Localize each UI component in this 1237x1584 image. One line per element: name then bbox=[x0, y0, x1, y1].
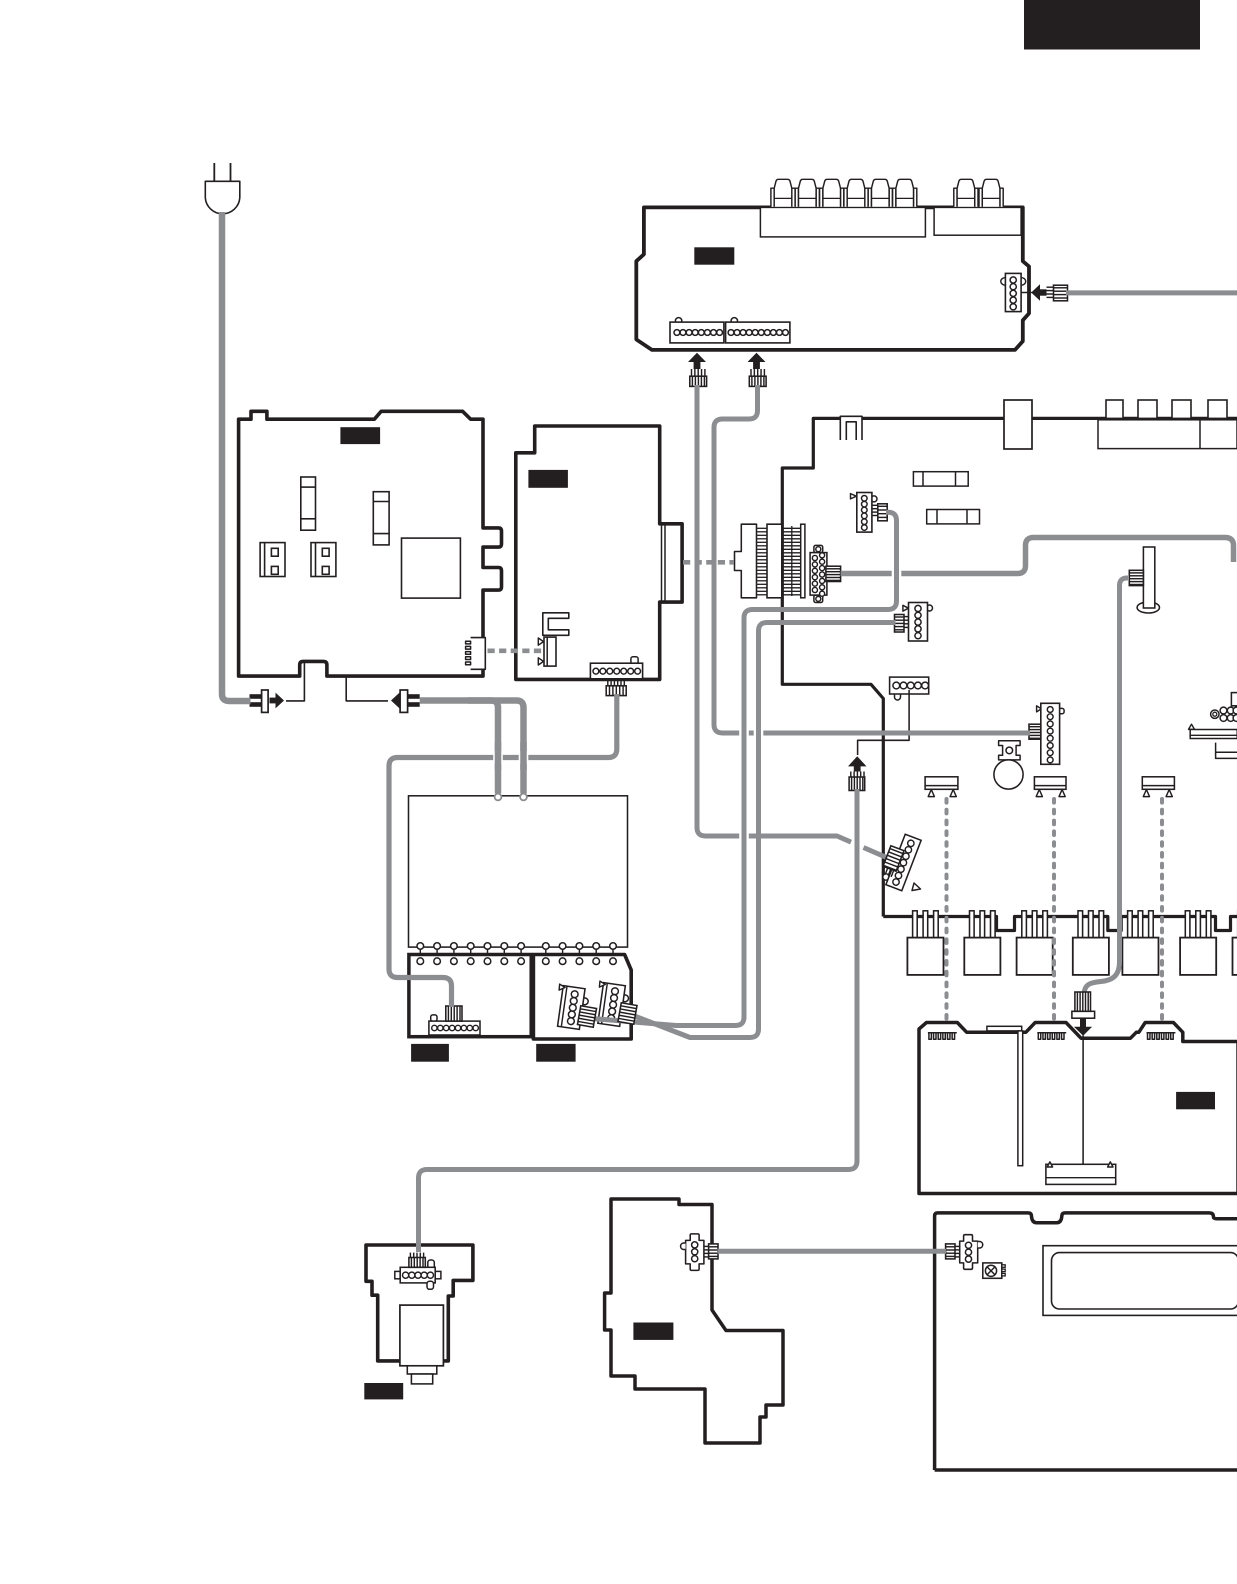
jack shield footprint 2 bbox=[934, 207, 1021, 235]
board PW-4 MAIN outline left/top bbox=[782, 418, 1237, 916]
plug P-A2 bbox=[750, 369, 752, 376]
wire CN-M8 to P-H1 bbox=[1084, 578, 1128, 996]
arrow into CN-A1 bbox=[688, 353, 706, 369]
flex ribbon connector assembly bbox=[735, 524, 757, 598]
AC plug body bbox=[205, 181, 240, 213]
heatsink comb 3 bbox=[1147, 1033, 1176, 1040]
connector CN-M1 6pin bbox=[851, 494, 857, 499]
RCA jack group 1 (6 jacks) bbox=[771, 188, 774, 207]
connector CN-A3 5pin right bbox=[1001, 278, 1006, 286]
connector CN-S1 3pin bbox=[686, 1234, 704, 1271]
heatsink comb 2 bbox=[1037, 1033, 1066, 1040]
wire PW-2 to PW-5 bbox=[389, 694, 617, 1007]
connector CN-M3 5pin bbox=[903, 605, 909, 611]
board PW-8 DISPLAY outline bbox=[935, 1213, 1237, 1470]
board PW-10 outline bbox=[366, 1245, 473, 1361]
relay RY2 bbox=[311, 543, 336, 577]
signal line CN-M4 to plug bbox=[858, 690, 910, 755]
plug P-B1 bbox=[446, 1006, 462, 1021]
thermal sensor bar bbox=[1046, 1164, 1116, 1184]
plug P-M5 (to microphone board) bbox=[850, 772, 852, 778]
spacer S2 bbox=[1034, 777, 1066, 790]
connector CN-D1 3pin bbox=[960, 1235, 978, 1270]
connector CN-C1 tilted bbox=[554, 984, 590, 1030]
board PW-4 bottom edge zigzag bbox=[883, 917, 1237, 931]
triangle marker bottom bbox=[538, 658, 543, 665]
plug P-HP bbox=[409, 1253, 411, 1258]
fuse F3 bbox=[913, 472, 968, 486]
wire AC pair to transformer bbox=[420, 701, 524, 794]
plug P-A3 bbox=[1047, 286, 1054, 288]
PW-6 input terminals bbox=[543, 958, 550, 965]
plug P-H1 (heatsink) bbox=[1072, 1011, 1095, 1018]
connector CN-7P on PW-2 bottom bbox=[631, 657, 638, 664]
power transformer T1 box bbox=[409, 796, 628, 947]
dashed link PW-2 tab to ribbon connector bbox=[683, 560, 734, 565]
label PW-9 bbox=[633, 1323, 673, 1340]
label PW-10 bbox=[364, 1383, 403, 1399]
T1 secondary terminals bbox=[417, 943, 424, 950]
board PW-3 INPUT outline bbox=[636, 207, 1029, 350]
CN-M7 triangle marker bbox=[912, 883, 921, 891]
re-drawn crossing wire segments bbox=[742, 820, 747, 845]
wire P-A3 to right edge bbox=[1066, 290, 1237, 295]
wire P-M5 to P-HP bbox=[419, 789, 858, 1252]
triangle marker top bbox=[538, 638, 543, 645]
connector CN-M8 vertical post bbox=[1137, 602, 1159, 613]
heatsink bracket stem bbox=[1018, 1031, 1023, 1166]
connector CN-B1 8pin bbox=[431, 1015, 437, 1021]
connector CN-M7 tilted bbox=[883, 874, 889, 880]
jack shield footprint 1 bbox=[760, 207, 925, 237]
plug P-M8 bbox=[1129, 570, 1143, 585]
label PW-2 bbox=[528, 470, 568, 488]
arrow up into CN-M4 line bbox=[848, 756, 867, 771]
plug P-C2 tilted bbox=[618, 1003, 637, 1024]
label PW-1 bbox=[340, 427, 380, 444]
plug P-A1 bbox=[691, 369, 693, 376]
AC inlet CN-right prongs bbox=[408, 694, 420, 699]
connector CN-M6 8pin bbox=[1037, 706, 1042, 712]
wire relay2 to AC inlet CN-right bbox=[329, 560, 389, 701]
spacer S1 bbox=[925, 777, 958, 790]
speaker terminal block bbox=[1098, 420, 1237, 449]
bracket on PW-2 bbox=[543, 613, 569, 636]
board PW-9 outline bbox=[605, 1199, 783, 1443]
board PW-7 heatsink outline bbox=[919, 1023, 1237, 1194]
dashed link CN-PW to CN-E bbox=[488, 648, 546, 653]
arrow into CN-A2 bbox=[748, 353, 766, 369]
wire P-A2 to P-M6 bbox=[714, 385, 1030, 733]
dashed spacer line S3 bbox=[1160, 799, 1164, 1021]
connector CN-M2 2x7 bbox=[814, 545, 823, 552]
transformer primary terminal left bbox=[495, 794, 502, 801]
label PW-3 bbox=[694, 247, 734, 264]
plug P-M2 bbox=[826, 566, 841, 581]
board PW-6 outline bbox=[533, 955, 631, 1040]
edge connector CN-E on PW-2 bbox=[544, 637, 556, 666]
wire P-M1 to P-C1 bbox=[592, 512, 897, 1025]
plug P-M3 bbox=[895, 615, 905, 633]
headphone jack body bbox=[400, 1305, 444, 1366]
plug P-D1 bbox=[946, 1244, 955, 1259]
wire relay1 to AC inlet CN-left bbox=[277, 560, 304, 701]
wire P-S1 to P-D1 bbox=[718, 1249, 947, 1254]
AC inlet CN-right body bbox=[400, 690, 408, 712]
connector CN-HP 5pin bbox=[428, 1260, 435, 1269]
plug P-M1 bbox=[872, 504, 878, 506]
RCA jack group 2 (2 jacks) bbox=[954, 188, 957, 207]
plug P-M7 tilted (on CN-M7) bbox=[881, 846, 904, 878]
relay RY1 bbox=[260, 543, 285, 577]
connector CN-C2 tilted bbox=[594, 981, 630, 1027]
page index black tab bbox=[1024, 0, 1200, 50]
capacitor clamp bbox=[999, 741, 1021, 760]
fuse F1 bbox=[301, 477, 316, 530]
trimmer VR1 bbox=[983, 1263, 1002, 1278]
power transformer T1 footprint bbox=[402, 538, 461, 598]
AC inlet CN-left body bbox=[262, 690, 269, 712]
plug P-S1 bbox=[704, 1245, 709, 1247]
arrow down into heatsink bbox=[1074, 1018, 1092, 1036]
heatsink bracket bar bbox=[987, 1026, 1022, 1031]
AC plug prong left bbox=[213, 163, 215, 182]
plug P-M6 bbox=[1029, 724, 1041, 739]
plug P-C1 tilted bbox=[577, 1006, 596, 1027]
speaker terminal tabs bbox=[1106, 400, 1123, 418]
dashed spacer line S1 bbox=[945, 799, 949, 1021]
wire power cord bbox=[222, 212, 251, 701]
connector CN-M4 5pin horizontal bbox=[890, 677, 929, 694]
spacer S3 bbox=[1142, 777, 1174, 790]
board edge whiteout under jacks bbox=[771, 204, 916, 211]
PW-5 input terminals bbox=[417, 958, 424, 965]
wire P-A1 to CN-M7 (gap at crossings) bbox=[697, 385, 887, 858]
dashed spacer line S2 bbox=[1052, 799, 1056, 1021]
board PW-5 outline bbox=[409, 955, 531, 1037]
plug P-7P bbox=[607, 679, 609, 685]
fuse F2 bbox=[373, 492, 389, 545]
chassis bracket U on top edge bbox=[840, 416, 862, 440]
transformer primary terminal right bbox=[520, 794, 527, 801]
AC inlet CN-left prongs bbox=[250, 694, 262, 699]
PW-2 right tab inner lines bbox=[661, 524, 663, 602]
AC inlet CN-left arrow bbox=[270, 693, 285, 709]
capacitor C1 bbox=[994, 760, 1023, 789]
fuse F4 bbox=[927, 510, 980, 524]
wire P-M3 to P-C2 bbox=[632, 623, 896, 1038]
label PW-5 bbox=[411, 1044, 449, 1062]
connector CN-A1 8pin bbox=[675, 318, 681, 324]
output transistors row bbox=[913, 911, 918, 939]
arrow into CN-A3 bbox=[1031, 284, 1046, 300]
thermal line bbox=[1082, 1036, 1084, 1176]
board PW-2 outline bbox=[516, 426, 682, 679]
wire P-M2 to right edge bbox=[841, 538, 1234, 574]
T1 secondary terminal ticks bbox=[419, 946, 421, 958]
card-edge connector CN-PW (comb) bbox=[471, 638, 486, 670]
board PW-1 POWER outline bbox=[239, 411, 502, 676]
heatsink comb 1 bbox=[928, 1033, 957, 1040]
AC plug prong right bbox=[230, 163, 232, 182]
label PW-7 bbox=[1176, 1092, 1215, 1109]
LCD display window bbox=[1043, 1246, 1237, 1316]
right edge connector cluster bbox=[1231, 693, 1237, 706]
AC inlet CN-right arrow bbox=[391, 693, 406, 709]
top tab connector bbox=[1004, 400, 1032, 449]
wire crossing gaps bbox=[739, 830, 749, 843]
label PW-6 bbox=[536, 1044, 575, 1062]
connector CN-A2 10pin bbox=[731, 318, 737, 324]
